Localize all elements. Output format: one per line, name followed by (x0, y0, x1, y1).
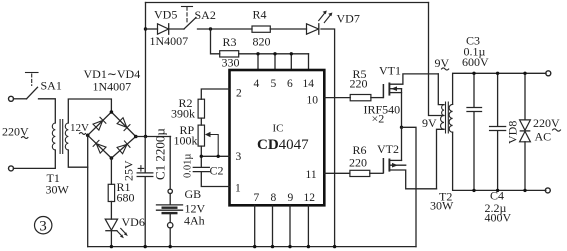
wire T1 secondary bottom to left vertex column (68, 150, 87, 167)
svg-text:R3: R3 (223, 35, 237, 49)
svg-text:3: 3 (39, 219, 47, 235)
resistor R6 220 (349, 143, 370, 177)
wire input bottom to T1 primary bottom (14, 150, 56, 168)
svg-text:30W: 30W (430, 199, 454, 213)
svg-text:1N4007: 1N4007 (93, 80, 132, 94)
terminal AC input bottom (9, 166, 14, 171)
wire SA1 to T1 primary top (39, 99, 56, 123)
node R4/R3 junction (209, 27, 212, 30)
svg-text:220: 220 (350, 77, 368, 91)
resistor R5 220 (350, 67, 371, 101)
node bridge right (134, 135, 138, 139)
svg-text:VT2: VT2 (377, 142, 399, 156)
svg-text:100k: 100k (174, 134, 198, 148)
wire R4 to VD7 (270, 28, 306, 30)
LED VD7 (307, 11, 360, 35)
svg-text:CD4047: CD4047 (257, 137, 309, 153)
svg-text:0.01µ: 0.01µ (183, 154, 194, 178)
diode VD5 (150, 8, 189, 49)
svg-text:390k: 390k (171, 107, 195, 121)
wire R5 to VT1 gate (371, 97, 383, 99)
svg-text:8: 8 (271, 192, 277, 204)
wire R6 to VT2 gate (370, 172, 383, 174)
svg-text:VD8: VD8 (506, 121, 520, 144)
svg-text:12V: 12V (70, 122, 89, 134)
node ground rail VD7 (333, 245, 336, 248)
wire pin 11 to R6 (325, 172, 350, 174)
node bridge left (86, 134, 90, 138)
svg-text:SA1: SA1 (41, 79, 62, 93)
wire T2 secondary top lead to output rail (453, 73, 546, 104)
battery GB 12V 4Ah (157, 137, 206, 249)
svg-text:25V: 25V (122, 160, 136, 181)
svg-text:R4: R4 (253, 8, 267, 22)
label 9V bottom (422, 116, 437, 130)
transformer T2 (430, 102, 454, 213)
wire top +12V rail (146, 2, 429, 4)
resistor R3 330 (220, 35, 240, 70)
LED VD6 (105, 202, 145, 249)
svg-text:220: 220 (349, 156, 367, 170)
transistor VT2 (377, 142, 437, 189)
svg-text:7: 7 (254, 192, 260, 204)
svg-text:6: 6 (287, 78, 293, 90)
wire VD5 cathode to SA2 (169, 28, 184, 30)
bridge rectifier VD1-VD4 (86, 110, 138, 160)
label circled 3 (35, 217, 52, 235)
svg-text:4: 4 (254, 78, 260, 90)
label 220V input (2, 125, 29, 139)
svg-text:220V: 220V (533, 116, 560, 130)
svg-text:9: 9 (288, 192, 294, 204)
wire R3 to IC top pins (239, 53, 309, 55)
capacitor C3 0.1u 600V (462, 34, 489, 193)
node bridge bottom (110, 156, 114, 160)
svg-text:C2: C2 (210, 164, 224, 178)
resistor R1 680 (108, 158, 134, 204)
svg-text:×2: ×2 (372, 112, 385, 126)
resistor R4 820 (252, 8, 271, 49)
wire pin 4 drop (257, 54, 259, 70)
svg-text:820: 820 (253, 35, 271, 49)
wire sources to ground rail (402, 127, 417, 246)
svg-text:680: 680 (117, 191, 135, 205)
wire VT1 drain to T2 primary top (438, 74, 444, 105)
wire pin 6 drop (290, 54, 292, 70)
node VT sources junction (400, 126, 403, 129)
svg-text:30W: 30W (46, 183, 70, 197)
wire pin 14 drop (308, 54, 310, 70)
wire SA2 to R4/R3 junction (198, 28, 253, 30)
svg-text:10: 10 (307, 95, 319, 107)
label 9V top (435, 56, 450, 70)
svg-text:600V: 600V (462, 55, 489, 69)
node bridge top (110, 110, 114, 114)
diode D BR (117, 141, 130, 154)
svg-text:2: 2 (236, 88, 242, 100)
svg-text:14: 14 (303, 78, 315, 90)
svg-text:C1 2200µ: C1 2200µ (153, 128, 168, 180)
terminal output top (546, 71, 551, 76)
wire left supply column (top rail to +12 node) (145, 3, 147, 137)
wire IC pin 8 drop (272, 205, 274, 246)
svg-text:1: 1 (235, 183, 241, 195)
transformer T2 primary bumps (441, 105, 444, 130)
node VD5 branch junction (144, 27, 147, 30)
wire R2 to RP (200, 118, 202, 125)
svg-text:VD6: VD6 (122, 215, 145, 229)
transformer T2 secondary bumps (449, 104, 452, 132)
svg-text:AC: AC (535, 130, 552, 144)
svg-text:4Ah: 4Ah (184, 214, 205, 228)
terminal output bottom (545, 188, 550, 193)
diode D TR (117, 118, 130, 131)
resistor R2 390k (171, 96, 205, 121)
diode D TL (93, 117, 106, 130)
wire R3 branch (211, 29, 220, 54)
transformer T1 (46, 120, 70, 197)
wire RP to pin3 node (200, 146, 202, 167)
node C1/top-rail (144, 135, 147, 138)
svg-text:12: 12 (304, 192, 316, 204)
wire ground rail (88, 246, 416, 248)
wire junction down to VT2 (401, 127, 403, 160)
potentiometer RP 100k (174, 123, 219, 156)
wire IC pin 7 drop (254, 205, 256, 246)
node pin3/RP wiper (217, 155, 220, 158)
capacitor C4 2.2u 400V (485, 72, 512, 225)
wire center tap feed from top rail (429, 3, 445, 116)
wire pin 10 to R5 (325, 97, 351, 99)
wire pin 3 (201, 155, 229, 157)
svg-text:400V: 400V (485, 211, 512, 225)
svg-text:SA2: SA2 (195, 8, 216, 22)
svg-text:9V: 9V (422, 116, 437, 130)
svg-text:GB: GB (185, 187, 202, 201)
capacitor C2 0.01u (183, 154, 224, 178)
wire left vertex to ground rail (87, 135, 89, 246)
wire VT2 drain to T2 primary bottom (437, 129, 445, 189)
wire IC pin 9 drop (289, 205, 291, 246)
svg-text:5: 5 (271, 78, 277, 90)
wire T1 secondary top to bridge (68, 99, 111, 123)
node pin5 (273, 52, 276, 55)
svg-text:VT1: VT1 (379, 64, 401, 78)
svg-text:330: 330 (222, 56, 240, 70)
terminal AC input top (9, 96, 14, 101)
wire T2 secondary bottom lead to output rail (453, 132, 546, 190)
svg-text:3: 3 (236, 151, 242, 163)
wire C2 to pin 1 (201, 172, 229, 187)
wire VD5 anode lead (146, 28, 158, 30)
node pin3/C2 (200, 155, 203, 158)
diode D BL (93, 140, 106, 153)
capacitor C1 2200u 25V (122, 128, 168, 249)
switch SA1 (14, 73, 62, 99)
bidirectional diode VD8 (506, 72, 531, 192)
op-amp U1 IC CD4047 box (230, 70, 325, 205)
svg-text:1N4007: 1N4007 (150, 34, 189, 48)
wire VD7 cathode drop to ground rail (321, 29, 335, 247)
node pin4 (256, 52, 259, 55)
label 12V (70, 122, 89, 134)
wire pin 2 to R2 column (201, 89, 229, 99)
svg-text:VD7: VD7 (337, 12, 360, 26)
svg-text:IC: IC (273, 123, 284, 135)
label 220V AC output (533, 116, 561, 144)
switch SA2 (182, 7, 216, 30)
transistor VT1 IRF540 (364, 64, 439, 128)
svg-text:220V: 220V (2, 125, 29, 139)
wire IC pin 12 drop (307, 205, 309, 246)
wire pin 5 drop (274, 54, 276, 70)
svg-text:VD5: VD5 (154, 8, 177, 22)
wire +12 node (136, 136, 171, 138)
svg-text:11: 11 (306, 169, 317, 181)
node pin6 (290, 52, 293, 55)
